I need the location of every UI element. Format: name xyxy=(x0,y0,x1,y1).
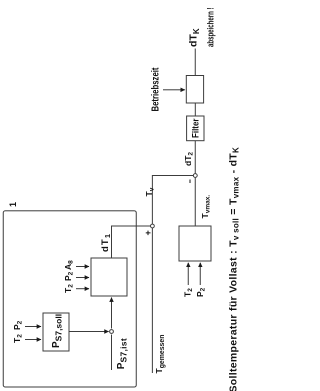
svg-text:PS7,ist: PS7,ist xyxy=(116,338,129,369)
svg-text:Tgemessen: Tgemessen xyxy=(154,335,166,374)
block T2P2A8 xyxy=(91,258,127,296)
wire P2 arrow into T2P2A8 block xyxy=(76,277,89,279)
svg-text:P2: P2 xyxy=(195,287,207,297)
svg-text:dTK: dTK xyxy=(188,28,202,47)
wire Filter to Betriebszeit block xyxy=(194,103,196,116)
svg-text:T2: T2 xyxy=(63,284,75,293)
svg-text:dT2: dT2 xyxy=(183,152,195,166)
wire P2 arrow into Tvmax block xyxy=(199,263,201,285)
wire T2 arrow into T2P2A8 block xyxy=(76,288,89,290)
svg-text:+: + xyxy=(143,230,153,235)
block Tvmax xyxy=(179,226,211,261)
svg-text:dT1: dT1 xyxy=(100,233,112,252)
svg-text:Betriebszeit: Betriebszeit xyxy=(151,67,162,112)
wire Tvmax output to minus node xyxy=(194,178,196,226)
wire Tgemessen to plus node to corner down to minus node xyxy=(152,176,193,374)
wire PS7,ist xyxy=(111,335,113,371)
node minus junction xyxy=(193,174,197,178)
wire Betriebszeit arrow into block xyxy=(163,89,185,91)
wire P2 arrow into PS7soll box xyxy=(25,326,41,328)
node plus junction xyxy=(151,224,155,228)
wire PS7,soll output down arrow into node xyxy=(69,331,109,333)
svg-text:Solltemperatur für Vollast : T: Solltemperatur für Vollast : Tv soll = T… xyxy=(227,147,240,391)
svg-text:T2: T2 xyxy=(183,288,195,297)
block Filter xyxy=(187,116,204,141)
wire minus node to Filter xyxy=(194,141,196,174)
svg-text:Filter: Filter xyxy=(191,118,201,138)
wire A8 arrow into T2P2A8 block xyxy=(76,266,89,268)
wire dT1 from block to plus node xyxy=(112,226,151,258)
wire T2 arrow into Tvmax block xyxy=(187,263,189,285)
frame block 1 xyxy=(3,211,136,387)
node PS7 junction xyxy=(110,330,114,334)
svg-text:abspeichern !: abspeichern ! xyxy=(206,8,217,48)
svg-text:PS7,soll: PS7,soll xyxy=(51,314,64,348)
svg-text:P2: P2 xyxy=(12,320,24,330)
wire node to T2P2A8 block arrow xyxy=(111,298,113,329)
svg-text:P2: P2 xyxy=(63,271,75,281)
svg-text:Tvmax.: Tvmax. xyxy=(200,195,212,219)
svg-text:1: 1 xyxy=(8,202,18,207)
svg-text:A8: A8 xyxy=(63,260,75,270)
block PS7,soll xyxy=(43,313,69,351)
svg-text:Tv: Tv xyxy=(144,187,156,196)
wire T2 arrow into PS7soll box xyxy=(25,339,41,341)
svg-text:T2: T2 xyxy=(12,334,24,343)
sign minus at node xyxy=(189,180,191,184)
wire output to dTK xyxy=(194,49,196,76)
block Betriebszeit store xyxy=(186,76,203,104)
